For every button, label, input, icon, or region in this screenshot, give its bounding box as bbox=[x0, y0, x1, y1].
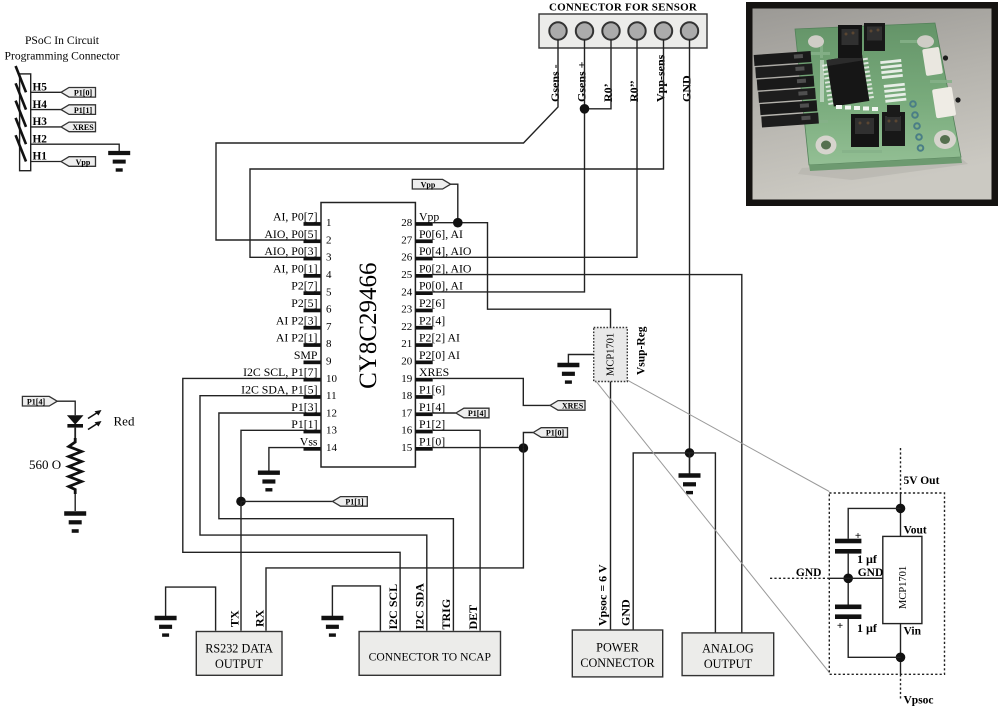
connector J1 PSoC programming header bbox=[20, 74, 31, 171]
svg-text:P1[6]: P1[6] bbox=[419, 383, 445, 397]
svg-text:8: 8 bbox=[326, 338, 332, 350]
svg-text:I2C SCL: I2C SCL bbox=[386, 584, 400, 630]
photo of sensor PCB (framed) bbox=[746, 2, 998, 206]
svg-text:P1[4]: P1[4] bbox=[27, 398, 46, 407]
mounting hole top-right bbox=[917, 35, 934, 47]
wire net P1[4] (U1 pin17 to flag) bbox=[433, 412, 456, 414]
net flag P1[1] (at U1) bbox=[333, 497, 368, 507]
svg-text:Vin: Vin bbox=[904, 626, 922, 638]
solder sparkle row under IC bbox=[820, 60, 878, 111]
net flag XRES (at U1) bbox=[550, 401, 585, 411]
U1 pin 2 stub bbox=[304, 239, 321, 243]
svg-text:Vpsoc = 6 V: Vpsoc = 6 V bbox=[596, 564, 610, 626]
box ANALOG OUTPUT bbox=[682, 633, 774, 676]
capacitor C2 1uf bbox=[835, 605, 861, 633]
junction Vpp node bbox=[453, 218, 463, 228]
teal via rings bbox=[910, 101, 923, 151]
op-amp U1 microcontroller CY8C29466 body bbox=[321, 203, 415, 468]
svg-text:Vpp-sens: Vpp-sens bbox=[654, 54, 668, 102]
svg-text:Red: Red bbox=[114, 414, 135, 429]
svg-text:GND: GND bbox=[858, 567, 884, 579]
small chip below pads bbox=[887, 105, 900, 117]
svg-text:CONNECTOR TO NCAP: CONNECTOR TO NCAP bbox=[369, 651, 491, 664]
svg-text:5V Out: 5V Out bbox=[904, 475, 940, 487]
svg-text:CY8C29466: CY8C29466 bbox=[355, 262, 382, 388]
wire H1 to flag bbox=[31, 161, 61, 163]
J2 pin 3 pad bbox=[602, 22, 619, 39]
svg-text:+: + bbox=[837, 620, 843, 632]
svg-text:R0’: R0’ bbox=[601, 83, 615, 102]
ground symbol (NCAP) bbox=[321, 618, 343, 635]
U1 pin 26 stub bbox=[415, 257, 432, 261]
U1 pin 12 stub bbox=[304, 412, 321, 416]
svg-text:P2[2] AI: P2[2] AI bbox=[419, 331, 460, 345]
svg-text:Vpp: Vpp bbox=[76, 158, 91, 167]
wire GND to analog output bbox=[690, 453, 716, 633]
U1 pin 16 stub bbox=[415, 430, 432, 434]
svg-text:14: 14 bbox=[326, 442, 338, 454]
callout line to detail bottom-left bbox=[595, 381, 829, 673]
svg-text:28: 28 bbox=[401, 217, 413, 229]
svg-text:CONNECTOR FOR SENSOR: CONNECTOR FOR SENSOR bbox=[549, 2, 698, 14]
J2 pin 6 pad bbox=[681, 22, 698, 39]
svg-text:27: 27 bbox=[401, 234, 413, 246]
box POWER CONNECTOR bbox=[572, 630, 662, 677]
svg-text:13: 13 bbox=[326, 425, 338, 437]
ground symbol (H2) bbox=[108, 153, 130, 170]
svg-text:AI P2[1]: AI P2[1] bbox=[276, 331, 318, 345]
J2 pin 5 pad bbox=[655, 22, 672, 39]
PCB board bbox=[795, 23, 961, 165]
svg-text:21: 21 bbox=[401, 338, 412, 350]
shadow under board bbox=[798, 159, 968, 180]
regulator U3 MCP1701 (detail) bbox=[883, 536, 922, 623]
svg-text:19: 19 bbox=[401, 373, 413, 385]
svg-text:P2[0] AI: P2[0] AI bbox=[419, 348, 460, 362]
svg-text:Programming Connector: Programming Connector bbox=[5, 50, 120, 63]
left 6-pin connector bbox=[754, 51, 819, 127]
svg-text:ANALOG: ANALOG bbox=[702, 642, 754, 656]
svg-text:P1[0]: P1[0] bbox=[419, 434, 445, 448]
svg-text:R0’’: R0’’ bbox=[627, 80, 641, 102]
wire net P1[0] (U1 pin15) bbox=[433, 447, 524, 449]
svg-text:+: + bbox=[855, 530, 861, 542]
svg-text:GND: GND bbox=[619, 599, 633, 626]
junction Vout node bbox=[896, 504, 906, 514]
svg-text:4: 4 bbox=[326, 269, 332, 281]
white switch 2 bbox=[932, 87, 961, 119]
wire flag to LED bbox=[57, 401, 75, 415]
box RS232 DATA OUTPUT bbox=[196, 632, 282, 676]
svg-text:P1[4]: P1[4] bbox=[468, 409, 487, 418]
svg-text:Vpsoc: Vpsoc bbox=[904, 695, 934, 707]
svg-text:DET: DET bbox=[466, 605, 480, 630]
regulator U2 MCP1701 bbox=[594, 328, 628, 382]
U1 pin 28 stub bbox=[415, 222, 432, 226]
U1 pin 24 stub bbox=[415, 291, 432, 295]
wire net GND (sensor pin6 down) bbox=[689, 40, 691, 453]
svg-text:P2[7]: P2[7] bbox=[291, 279, 317, 293]
ground symbol (analog) bbox=[679, 476, 701, 493]
svg-text:25: 25 bbox=[401, 269, 413, 281]
svg-text:1: 1 bbox=[326, 217, 332, 229]
svg-text:18: 18 bbox=[401, 390, 413, 402]
wire net Gsens+ (sensor pin2 to U1 pin24) bbox=[433, 40, 585, 292]
wire net Vss (U1 pin14 to ground) bbox=[269, 448, 304, 471]
wire GND dashed (entering box) bbox=[770, 577, 829, 579]
svg-text:I2C SCL, P1[7]: I2C SCL, P1[7] bbox=[243, 365, 317, 379]
svg-text:23: 23 bbox=[401, 304, 413, 316]
svg-text:P1[1]: P1[1] bbox=[345, 498, 364, 507]
svg-text:RX: RX bbox=[253, 609, 267, 627]
wire net P1[1] (U1 pin13) bbox=[241, 430, 304, 501]
svg-text:PSoC In Circuit: PSoC In Circuit bbox=[25, 34, 100, 47]
junction GND (detail) bbox=[843, 574, 853, 584]
wire Vout node bbox=[900, 493, 902, 536]
svg-text:3: 3 bbox=[326, 252, 332, 264]
U1 pin 10 stub bbox=[304, 378, 321, 382]
wire net Vpp-sens (sensor pin5 to U1 pin3) bbox=[250, 40, 664, 258]
wire GND to power connector bbox=[633, 453, 689, 631]
U1 pin 17 stub bbox=[415, 412, 432, 416]
svg-text:AIO, P0[3]: AIO, P0[3] bbox=[264, 244, 317, 258]
pin H4 switch blade bbox=[16, 83, 26, 109]
svg-text:17: 17 bbox=[401, 407, 413, 419]
pin H5 switch blade bbox=[16, 66, 26, 92]
svg-text:GND: GND bbox=[796, 567, 822, 579]
svg-text:Vsup-Reg: Vsup-Reg bbox=[636, 326, 648, 375]
svg-text:AIO, P0[5]: AIO, P0[5] bbox=[264, 227, 317, 241]
wire net P0[2] (U1 pin25 to analog output) bbox=[433, 275, 742, 634]
central IC bbox=[822, 54, 875, 108]
wire net Vpsoc (U2 to power connector) bbox=[610, 382, 612, 631]
net flag P1[0] (at U1) bbox=[533, 428, 567, 438]
white pad clusters bbox=[880, 59, 906, 103]
junction GND node bbox=[685, 448, 695, 458]
wire P1[1] to flag bbox=[241, 500, 333, 502]
board traces texture bbox=[800, 38, 952, 153]
wire LED to resistor bbox=[74, 428, 76, 440]
svg-text:P0[6], AI: P0[6], AI bbox=[419, 227, 463, 241]
pin H3 switch blade bbox=[16, 101, 26, 127]
wire P1[1] to RS232 TX bbox=[240, 501, 242, 630]
U1 pin 9 stub bbox=[304, 361, 321, 365]
U1 pin 8 stub bbox=[304, 343, 321, 347]
svg-text:16: 16 bbox=[401, 425, 413, 437]
svg-text:RS232 DATA: RS232 DATA bbox=[205, 642, 273, 656]
svg-text:OUTPUT: OUTPUT bbox=[704, 657, 753, 671]
svg-text:10: 10 bbox=[326, 373, 338, 385]
wire net R0'' (sensor pin4 to U1 pin26) bbox=[433, 40, 637, 258]
U1 pin 1 stub bbox=[304, 222, 321, 226]
wire Vpsoc (dashed below box) bbox=[900, 674, 902, 700]
svg-text:MCP1701: MCP1701 bbox=[606, 333, 617, 376]
svg-text:OUTPUT: OUTPUT bbox=[215, 657, 264, 671]
svg-text:P0[0], AI: P0[0], AI bbox=[419, 279, 463, 293]
wire P1[0] to RS232 RX bbox=[266, 448, 523, 631]
svg-text:1 µf: 1 µf bbox=[857, 552, 878, 566]
ground symbol (LED) bbox=[64, 514, 86, 532]
svg-text:P2[6]: P2[6] bbox=[419, 296, 445, 310]
svg-text:7: 7 bbox=[326, 321, 332, 333]
svg-text:20: 20 bbox=[401, 356, 413, 368]
U1 pin 6 stub bbox=[304, 309, 321, 313]
svg-text:XRES: XRES bbox=[419, 365, 449, 379]
svg-text:P1[3]: P1[3] bbox=[291, 400, 317, 414]
ground symbol (Vss) bbox=[258, 473, 280, 490]
U1 pin 25 stub bbox=[415, 274, 432, 278]
wire RS232 ground bbox=[166, 587, 216, 631]
svg-text:560 O: 560 O bbox=[29, 457, 61, 472]
wire net I2C SDA (U1 pin11 to NCAP) bbox=[200, 396, 427, 631]
ground symbol (RS232) bbox=[155, 618, 177, 635]
svg-text:26: 26 bbox=[401, 252, 413, 264]
wire 5V Out (dashed above box) bbox=[900, 448, 902, 493]
svg-text:P1[1]: P1[1] bbox=[74, 106, 93, 115]
net flag P1[0] bbox=[61, 88, 96, 98]
wire C1 to GND junction bbox=[847, 554, 849, 605]
wire net R0' (sensor pin3 to Gsens+ junction) bbox=[585, 40, 612, 109]
U1 pin 18 stub bbox=[415, 395, 432, 399]
white switch 1 bbox=[922, 47, 948, 76]
svg-text:11: 11 bbox=[326, 390, 337, 402]
svg-text:P0[4], AIO: P0[4], AIO bbox=[419, 244, 472, 258]
svg-text:Vss: Vss bbox=[300, 434, 318, 448]
junction Vin node bbox=[896, 653, 906, 663]
J2 pin 4 pad bbox=[628, 22, 645, 39]
svg-text:P1[0]: P1[0] bbox=[546, 429, 565, 438]
ground symbol (U2) bbox=[557, 365, 579, 382]
J2 pin 1 pad bbox=[549, 22, 566, 39]
net flag P1[4] (at U1) bbox=[456, 408, 489, 418]
svg-text:P0[2], AIO: P0[2], AIO bbox=[419, 261, 472, 275]
net flag XRES bbox=[61, 122, 96, 132]
wire H5 to flag bbox=[31, 91, 61, 93]
U1 pin 13 stub bbox=[304, 430, 321, 434]
net flag Vpp (at U1) bbox=[412, 179, 450, 189]
wire net XRES (U1 pin19 to flag) bbox=[433, 378, 550, 405]
svg-text:22: 22 bbox=[401, 321, 412, 333]
svg-text:AI, P0[1]: AI, P0[1] bbox=[273, 261, 318, 275]
svg-text:XRES: XRES bbox=[562, 402, 584, 411]
title: PSoC In Circuit Programming Connector bbox=[5, 34, 120, 63]
wire H2 to ground bbox=[31, 144, 120, 151]
wire Vin node bbox=[900, 624, 902, 675]
svg-text:Gsens +: Gsens + bbox=[575, 61, 589, 102]
wire net Vpp (U1 pin28 to regulator) bbox=[433, 223, 611, 328]
svg-text:1 µf: 1 µf bbox=[857, 621, 878, 635]
pin H2 switch blade bbox=[16, 118, 26, 144]
U1 pin 20 stub bbox=[415, 361, 432, 365]
junction Gsens+/R0' bbox=[580, 104, 590, 114]
net flag Vpp bbox=[61, 157, 96, 167]
svg-text:TRIG: TRIG bbox=[439, 599, 453, 630]
U1 pin 14 stub bbox=[304, 447, 321, 451]
svg-text:I2C SDA, P1[5]: I2C SDA, P1[5] bbox=[241, 383, 317, 397]
svg-text:XRES: XRES bbox=[72, 123, 94, 132]
svg-text:P1[2]: P1[2] bbox=[419, 417, 445, 431]
box CONNECTOR TO NCAP bbox=[359, 632, 500, 676]
mounting hole bottom-right bbox=[934, 130, 956, 149]
net flag P1[1] bbox=[61, 105, 96, 115]
svg-text:TX: TX bbox=[228, 610, 242, 627]
svg-text:15: 15 bbox=[401, 442, 413, 454]
callout line to detail top-left bbox=[628, 381, 829, 492]
wire net I2C SCL (U1 pin10 to NCAP) bbox=[183, 378, 400, 630]
top header connectors bbox=[838, 23, 885, 58]
U1 pin 23 stub bbox=[415, 309, 432, 313]
svg-text:Vout: Vout bbox=[904, 525, 927, 537]
junction P1[0] node bbox=[519, 443, 529, 453]
wire net DET (U1 pin16 to NCAP) bbox=[433, 430, 480, 631]
svg-text:Vpp: Vpp bbox=[419, 210, 439, 224]
net flag P1[4] (LED drive) bbox=[22, 396, 57, 406]
svg-text:MCP1701: MCP1701 bbox=[898, 566, 909, 609]
U1 pin 4 stub bbox=[304, 274, 321, 278]
wire Vpp flag to junction bbox=[451, 184, 458, 223]
pin H1 switch blade bbox=[16, 135, 26, 161]
wire resistor to ground bbox=[74, 494, 76, 511]
svg-text:12: 12 bbox=[326, 407, 337, 419]
svg-text:Gsens -: Gsens - bbox=[548, 64, 562, 102]
svg-text:P1[1]: P1[1] bbox=[291, 417, 317, 431]
wire H3 to flag bbox=[31, 126, 61, 128]
svg-text:AI P2[3]: AI P2[3] bbox=[276, 313, 318, 327]
wire net TRIG (U1 pin12 to NCAP) bbox=[219, 413, 454, 631]
svg-text:CONNECTOR: CONNECTOR bbox=[580, 656, 655, 670]
LED D1 Red bbox=[67, 410, 102, 430]
svg-text:SMP: SMP bbox=[294, 348, 318, 362]
wire GND to U3 bbox=[829, 577, 883, 579]
svg-text:P1[0]: P1[0] bbox=[74, 89, 93, 98]
U1 pin 19 stub bbox=[415, 378, 432, 382]
U1 pin 7 stub bbox=[304, 326, 321, 330]
svg-text:5: 5 bbox=[326, 286, 332, 298]
U1 pin 5 stub bbox=[304, 291, 321, 295]
mounting hole top-left bbox=[808, 35, 824, 47]
J2 pin 2 pad bbox=[576, 22, 593, 39]
svg-text:2: 2 bbox=[326, 234, 332, 246]
detail box (regulator schematic) bbox=[829, 493, 944, 674]
U1 pin 27 stub bbox=[415, 239, 432, 243]
capacitor C1 1uf bbox=[835, 530, 861, 554]
svg-text:P1[4]: P1[4] bbox=[419, 400, 445, 414]
svg-text:POWER: POWER bbox=[596, 641, 640, 655]
U1 pin 22 stub bbox=[415, 326, 432, 330]
U1 pin 3 stub bbox=[304, 257, 321, 261]
svg-text:Vpp: Vpp bbox=[421, 180, 436, 189]
wire C2 to Vin node bbox=[848, 619, 900, 657]
wire GND stub to ground bbox=[689, 453, 691, 474]
mounting hole bottom-left bbox=[816, 136, 837, 155]
resistor R1 zigzag bbox=[69, 438, 82, 494]
svg-text:24: 24 bbox=[401, 286, 413, 298]
junction P1[1] node bbox=[236, 497, 246, 507]
svg-text:6: 6 bbox=[326, 304, 332, 316]
connector J2 for sensor (body) bbox=[539, 14, 707, 48]
wire NCAP ground bbox=[332, 586, 380, 631]
svg-text:GND: GND bbox=[680, 75, 694, 102]
wire net Gsens- (sensor pin1 to U1 pin2) bbox=[216, 40, 558, 240]
wire U2 ground pin bbox=[568, 355, 593, 364]
svg-text:AI, P0[7]: AI, P0[7] bbox=[273, 210, 318, 224]
wire H4 to flag bbox=[31, 109, 61, 111]
wire Vout to capacitor C1 bbox=[848, 508, 900, 538]
svg-text:9: 9 bbox=[326, 356, 332, 368]
U1 pin 21 stub bbox=[415, 343, 432, 347]
svg-text:P2[5]: P2[5] bbox=[291, 296, 317, 310]
svg-text:I2C SDA: I2C SDA bbox=[413, 583, 427, 630]
bottom header connectors bbox=[851, 112, 905, 147]
U1 pin 11 stub bbox=[304, 395, 321, 399]
svg-text:P2[4]: P2[4] bbox=[419, 313, 445, 327]
wire P1[0] to flag bbox=[523, 433, 533, 448]
U1 pin 15 stub bbox=[415, 447, 432, 451]
